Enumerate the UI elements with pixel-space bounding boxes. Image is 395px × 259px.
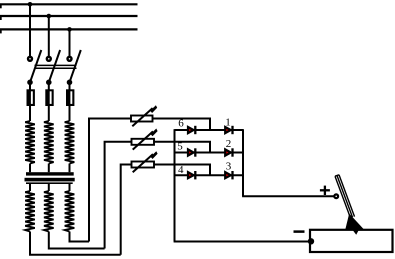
rectifier row 1 wire (anode bus to cathode bus)	[175, 129, 244, 131]
svg-text:4: 4	[178, 164, 184, 176]
three-phase bus line L1	[0, 3, 138, 5]
three-phase bus line L2	[0, 15, 138, 17]
negative bus: bottom run to workpiece	[174, 241, 311, 243]
rheostat R3 body	[132, 162, 155, 168]
wire: switch pole 2 to fuse FU2 (through-wire)	[48, 82, 50, 121]
fuse FU3	[66, 89, 74, 106]
rheostat R2 body	[132, 139, 155, 145]
switch QS blade, pole 3	[70, 50, 81, 82]
wire: riser 2 up to rheostat R2	[105, 142, 132, 249]
electrode holder connection node	[334, 194, 338, 198]
electrode holder (welding electrode)	[335, 175, 355, 218]
rheostat R2 adjustment arrow	[133, 131, 153, 149]
switch QS upper contact, pole 3	[68, 57, 72, 61]
switch QS blade, pole 1	[30, 50, 41, 82]
switch QS upper contact, pole 1	[28, 57, 32, 61]
wire: riser 1 up to rheostat R1	[89, 119, 131, 242]
switch QS blade, pole 2	[49, 50, 60, 82]
transformer T primary winding W1	[25, 121, 35, 164]
svg-text:3: 3	[226, 161, 232, 173]
wire: secondary W6 route to riser 1 (bottom inner run)	[70, 232, 90, 242]
three-phase bus line L3	[0, 28, 138, 30]
weld arc / molten pool	[345, 214, 364, 230]
transformer T secondary winding W4	[25, 191, 35, 232]
junction on L3 (phase C tap)	[67, 27, 72, 32]
wire: core to secondary W6	[69, 184, 71, 191]
svg-text:1: 1	[225, 117, 231, 129]
wire: rheostat R1 to rectifier row 1	[153, 119, 211, 131]
wire: riser 3 up to rheostat R3	[121, 165, 132, 255]
diode V3	[225, 171, 232, 179]
wire: core to secondary W4	[29, 184, 31, 191]
transformer T primary winding W3	[65, 121, 75, 164]
diode V6	[188, 126, 195, 134]
positive bus: run to electrode holder	[242, 195, 336, 197]
fuse FU2	[45, 89, 53, 106]
wire: switch pole 1 to fuse FU1 (through-wire)	[29, 82, 31, 121]
transformer T core bar (lower)	[25, 178, 75, 182]
junction on L1 (phase A tap)	[28, 2, 33, 7]
wire: L1 tap down to switch pole 1	[29, 4, 31, 57]
transformer T primary winding W2	[44, 121, 54, 164]
wire: secondary W5 route to riser 2 (bottom middle run)	[49, 232, 105, 249]
svg-text:6: 6	[178, 118, 184, 130]
rectifier row 3 wire	[175, 174, 244, 176]
svg-text:5: 5	[177, 140, 183, 152]
workpiece (base metal plate)	[310, 230, 393, 252]
transformer T secondary winding W5	[44, 191, 54, 232]
wire: core to secondary W5	[48, 184, 50, 191]
switch QS gang bar (mechanical link)	[35, 65, 77, 68]
rectifier row 2 wire	[175, 152, 244, 154]
wire: rheostat R3 to rectifier row 3	[154, 165, 210, 176]
bus L1 left-edge stub	[0, 4, 2, 8]
transformer T core bar (upper)	[26, 172, 74, 175]
workpiece negative terminal node	[308, 239, 313, 244]
transformer T secondary winding W6	[65, 191, 75, 232]
svg-text:2: 2	[226, 138, 232, 150]
wire: secondary W4 route to riser 3 (bottom outer run)	[30, 232, 121, 255]
switch QS lower contact, pole 2	[47, 80, 51, 84]
diode V5	[188, 148, 195, 156]
rheostat R3 adjustment arrow	[133, 154, 153, 172]
transformer T core bar (thin bottom)	[26, 182, 73, 184]
diode V4	[188, 171, 195, 179]
rheostat R1 adjustment arrow	[132, 108, 152, 126]
bus L3 left-edge stub	[0, 29, 2, 33]
switch QS lower contact, pole 3	[67, 80, 71, 84]
wire: rheostat R2 to rectifier row 2	[154, 142, 210, 153]
diode V1	[225, 126, 232, 134]
wire: primary W2 to core	[48, 164, 50, 173]
diode V2	[225, 148, 232, 156]
wire: primary W1 to core	[29, 164, 31, 173]
label "+" (positive output)	[320, 186, 330, 195]
positive bus: right vertical of rectifier	[242, 129, 244, 196]
negative bus: left vertical of rectifier	[174, 129, 176, 241]
junction on L2 (phase B tap)	[47, 14, 52, 19]
wire: switch pole 3 to fuse FU3 (through-wire)	[69, 82, 71, 121]
bus L2 left-edge stub	[0, 16, 2, 20]
switch QS upper contact, pole 2	[47, 57, 51, 61]
weld penetration tick	[353, 231, 359, 235]
fuse FU1	[27, 89, 35, 106]
switch QS lower contact, pole 1	[28, 80, 32, 84]
rheostat R1 body	[131, 116, 153, 122]
wire: L2 tap down to switch pole 2	[48, 16, 50, 57]
wire: primary W3 to core	[69, 164, 71, 173]
label "&#8722;" (negative output)	[294, 230, 305, 233]
wire: L3 tap down to switch pole 3	[69, 29, 71, 56]
